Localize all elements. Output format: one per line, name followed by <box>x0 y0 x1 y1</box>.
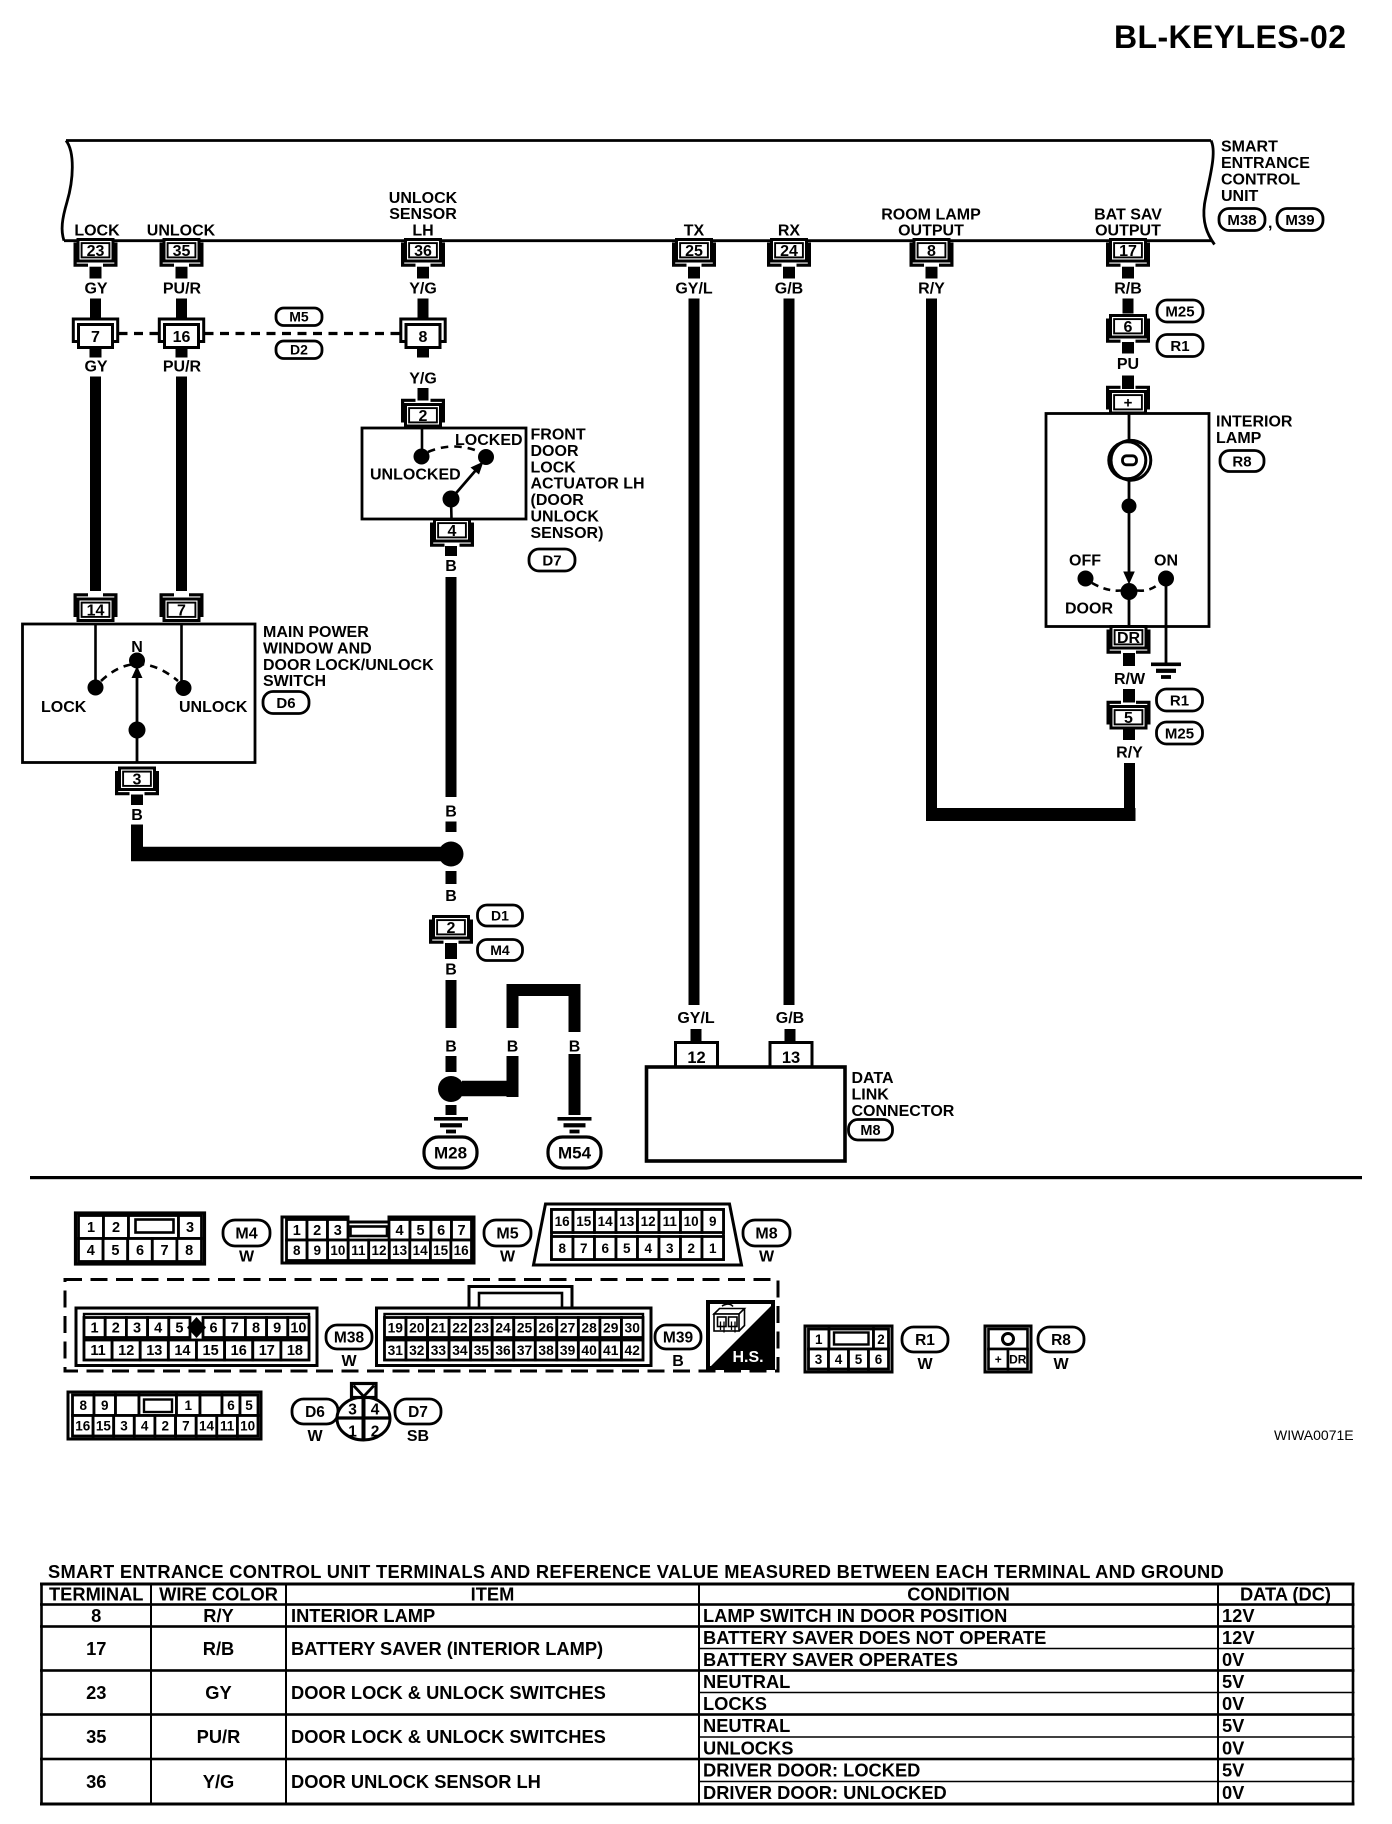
svg-text:TX: TX <box>684 223 705 240</box>
svg-text:D7: D7 <box>542 552 561 569</box>
ground junction <box>438 1076 464 1102</box>
ground at ON contact <box>1151 663 1181 679</box>
pin 13 of data link connector <box>770 1043 812 1067</box>
svg-text:DOOR LOCK/UNLOCK: DOOR LOCK/UNLOCK <box>263 657 434 674</box>
label DATA LINK CONNECTOR <box>852 1070 955 1120</box>
svg-text:12: 12 <box>371 1243 386 1258</box>
wire stub below connector 8 <box>417 348 429 358</box>
svg-text:33: 33 <box>431 1343 447 1358</box>
data link connector box <box>647 1067 846 1161</box>
svg-text:ROOM LAMP: ROOM LAMP <box>881 207 981 224</box>
dashed in-line connector link M5/D2 <box>119 332 159 335</box>
svg-text:D2: D2 <box>290 342 308 358</box>
svg-text:M4: M4 <box>490 942 510 958</box>
svg-text:CONNECTOR: CONNECTOR <box>852 1103 955 1120</box>
connector label R1 <box>1157 335 1203 357</box>
wire GY/L from TX pin 25 <box>689 299 700 1006</box>
label smart entrance control unit <box>1221 139 1310 206</box>
svg-text:R1: R1 <box>1170 692 1189 709</box>
connector M5/D2 pin 8 <box>401 319 445 348</box>
svg-text:DOOR: DOOR <box>531 443 579 460</box>
connector M8 pin layout <box>534 1204 742 1265</box>
ground label M28 <box>424 1137 477 1168</box>
svg-text:B: B <box>445 962 457 979</box>
pin DR of interior lamp <box>1108 627 1149 653</box>
smart entrance control unit band <box>62 141 1214 245</box>
svg-text:B: B <box>445 888 457 905</box>
svg-text:5: 5 <box>623 1241 631 1256</box>
svg-text:1: 1 <box>815 1332 823 1347</box>
svg-text:15: 15 <box>203 1343 219 1359</box>
svg-text:UNLOCK: UNLOCK <box>389 190 458 207</box>
svg-text:DOOR: DOOR <box>1065 601 1113 618</box>
svg-text:GY: GY <box>84 281 107 298</box>
wire from ON contact to ground <box>1165 585 1168 663</box>
wire stub below pin 25 <box>688 267 700 279</box>
svg-text:8: 8 <box>91 1605 101 1626</box>
ground label M54 <box>548 1137 601 1168</box>
svg-text:24: 24 <box>780 243 798 260</box>
svg-text:23: 23 <box>474 1321 490 1336</box>
table row terminal 23 <box>86 1671 1245 1714</box>
switch dashed arc <box>101 664 178 681</box>
svg-text:DOOR LOCK & UNLOCK SWITCHES: DOOR LOCK & UNLOCK SWITCHES <box>291 1682 606 1703</box>
connector M38 pin layout <box>76 1308 317 1366</box>
svg-text:DR: DR <box>1117 630 1141 647</box>
svg-text:8: 8 <box>185 1243 193 1259</box>
svg-text:21: 21 <box>431 1321 447 1336</box>
svg-text:7: 7 <box>161 1243 169 1259</box>
svg-text:SWITCH: SWITCH <box>263 673 326 690</box>
svg-text:R/B: R/B <box>203 1638 234 1659</box>
svg-text:4: 4 <box>395 1223 403 1239</box>
svg-text:4: 4 <box>87 1243 95 1259</box>
svg-text:29: 29 <box>603 1321 619 1336</box>
wire stub below connector 7 <box>90 348 102 358</box>
svg-text:LH: LH <box>412 223 433 240</box>
svg-text:H.S.: H.S. <box>732 1349 763 1366</box>
svg-text:7: 7 <box>177 603 186 620</box>
svg-text:5V: 5V <box>1222 1715 1245 1736</box>
switch internal wire from pin 14 <box>94 624 97 683</box>
wire stub above pin 5 <box>1123 689 1135 703</box>
svg-text:Y/G: Y/G <box>409 371 437 388</box>
svg-text:17: 17 <box>259 1343 275 1359</box>
svg-text:OUTPUT: OUTPUT <box>898 223 964 240</box>
svg-text:D1: D1 <box>491 908 509 924</box>
svg-text:22: 22 <box>452 1321 468 1336</box>
svg-text:CONDITION: CONDITION <box>907 1584 1010 1605</box>
svg-text:DOOR LOCK & UNLOCK SWITCHES: DOOR LOCK & UNLOCK SWITCHES <box>291 1726 606 1747</box>
svg-text:W: W <box>239 1249 255 1266</box>
wire G/B from RX pin 24 <box>784 299 795 1006</box>
interior lamp box <box>1046 414 1209 627</box>
svg-text:PU/R: PU/R <box>163 359 202 376</box>
svg-text:W: W <box>917 1356 933 1373</box>
svg-text:NEUTRAL: NEUTRAL <box>703 1671 790 1692</box>
svg-text:41: 41 <box>603 1343 619 1358</box>
connector label R1 <box>902 1327 948 1373</box>
table row terminal 36 <box>86 1760 1245 1804</box>
svg-text:BATTERY SAVER OPERATES: BATTERY SAVER OPERATES <box>703 1649 958 1670</box>
switch internal wire from pin 7 <box>180 624 183 683</box>
svg-text:6: 6 <box>437 1223 445 1239</box>
svg-text:16: 16 <box>173 329 191 346</box>
svg-text:FRONT: FRONT <box>531 427 586 444</box>
svg-text:RX: RX <box>778 223 801 240</box>
pin + of interior lamp <box>1108 387 1149 413</box>
wire stub below DR <box>1123 653 1135 666</box>
svg-text:M5: M5 <box>496 1226 518 1243</box>
pin 36 (UNLOCK SENSOR LH) of smart entrance control unit <box>403 240 444 266</box>
svg-text:Y/G: Y/G <box>203 1771 235 1792</box>
svg-text:PU/R: PU/R <box>163 281 202 298</box>
svg-text:2: 2 <box>112 1321 120 1337</box>
svg-text:40: 40 <box>581 1343 597 1358</box>
actuator UNLOCKED contact <box>414 449 430 465</box>
svg-text:15: 15 <box>433 1243 449 1258</box>
wire stub <box>446 822 457 833</box>
svg-text:UNLOCKED: UNLOCKED <box>370 467 461 484</box>
svg-text:2: 2 <box>371 1424 380 1441</box>
svg-text:,: , <box>1268 215 1272 232</box>
svg-text:11: 11 <box>220 1419 235 1434</box>
wire B from pin 4 <box>446 577 457 797</box>
connector R8 pin layout <box>985 1326 1031 1372</box>
svg-text:SENSOR: SENSOR <box>389 206 457 223</box>
svg-text:25: 25 <box>685 243 703 260</box>
svg-text:4: 4 <box>154 1321 162 1337</box>
svg-text:WINDOW AND: WINDOW AND <box>263 640 372 657</box>
svg-text:11: 11 <box>663 1214 678 1229</box>
pin 8 (ROOM LAMP OUTPUT) of smart entrance control unit <box>911 240 952 266</box>
svg-text:DR: DR <box>1009 1352 1027 1366</box>
connector label M5 <box>484 1220 531 1266</box>
svg-text:27: 27 <box>560 1321 576 1336</box>
svg-text:UNLOCKS: UNLOCKS <box>703 1737 793 1758</box>
svg-text:OFF: OFF <box>1069 553 1101 570</box>
svg-text:8: 8 <box>927 243 936 260</box>
connector label D7 <box>529 549 575 571</box>
connector M39 pin layout <box>377 1287 652 1366</box>
svg-text:3: 3 <box>186 1220 194 1236</box>
actuator LOCKED contact <box>478 449 494 465</box>
actuator dashed arc <box>428 447 480 453</box>
svg-text:6: 6 <box>601 1241 609 1256</box>
svg-text:14: 14 <box>199 1419 215 1434</box>
svg-text:W: W <box>759 1249 775 1266</box>
svg-text:M25: M25 <box>1165 725 1194 742</box>
wire stub below connector 6 <box>1122 342 1134 354</box>
svg-text:0V: 0V <box>1222 1649 1245 1670</box>
svg-text:4: 4 <box>371 1402 380 1419</box>
svg-text:8: 8 <box>558 1241 566 1256</box>
svg-text:12: 12 <box>118 1343 134 1359</box>
OFF contact <box>1078 571 1094 587</box>
terminals and reference value table <box>40 1583 1355 1806</box>
connector label M39 <box>655 1325 701 1370</box>
svg-text:13: 13 <box>782 1049 800 1067</box>
svg-text:26: 26 <box>538 1321 554 1336</box>
connector label D1 <box>478 905 523 926</box>
svg-text:ENTRANCE: ENTRANCE <box>1221 155 1310 172</box>
wire B to ground junction <box>446 980 457 1028</box>
svg-text:B: B <box>445 804 457 821</box>
svg-text:35: 35 <box>474 1343 490 1358</box>
pin 35 (UNLOCK) of smart entrance control unit <box>161 240 202 266</box>
svg-text:R/B: R/B <box>1114 281 1142 298</box>
svg-text:28: 28 <box>581 1321 597 1336</box>
svg-text:10: 10 <box>290 1321 306 1337</box>
svg-text:23: 23 <box>86 1682 106 1703</box>
label FRONT DOOR LOCK ACTUATOR LH (DOOR UNLOCK SENSOR) <box>531 427 645 542</box>
svg-text:UNIT: UNIT <box>1221 188 1259 205</box>
svg-text:D7: D7 <box>408 1404 428 1421</box>
svg-text:2: 2 <box>419 408 428 425</box>
ground M54 <box>558 1117 592 1133</box>
connector label M4 <box>478 940 523 961</box>
svg-text:DRIVER DOOR: UNLOCKED: DRIVER DOOR: UNLOCKED <box>703 1782 947 1803</box>
svg-text:3: 3 <box>348 1402 357 1419</box>
arrow to door switch <box>1123 506 1135 585</box>
label MAIN POWER WINDOW AND DOOR LOCK/UNLOCK SWITCH <box>263 624 434 690</box>
svg-text:15: 15 <box>576 1214 592 1229</box>
connector label M25 <box>1157 300 1203 322</box>
svg-text:2: 2 <box>161 1419 169 1434</box>
svg-text:R1: R1 <box>1170 338 1189 355</box>
label INTERIOR LAMP <box>1216 414 1293 448</box>
svg-text:GY/L: GY/L <box>677 1010 715 1027</box>
svg-text:37: 37 <box>517 1343 533 1358</box>
svg-text:35: 35 <box>86 1726 106 1747</box>
wire PU/R to pin 7 <box>176 377 187 592</box>
connector label M4 <box>223 1220 270 1266</box>
svg-text:TERMINAL: TERMINAL <box>49 1584 143 1605</box>
svg-text:20: 20 <box>409 1321 425 1336</box>
svg-text:R8: R8 <box>1051 1332 1071 1349</box>
svg-text:W: W <box>1053 1356 1069 1373</box>
wire B from junction to U-shape <box>462 1056 519 1097</box>
svg-text:MAIN POWER: MAIN POWER <box>263 624 369 641</box>
connector label D6 <box>292 1399 338 1445</box>
svg-text:BL-KEYLES-02: BL-KEYLES-02 <box>1114 19 1346 55</box>
svg-text:25: 25 <box>517 1321 533 1336</box>
pin name ROOM LAMP OUTPUT <box>881 207 981 240</box>
svg-text:8: 8 <box>252 1321 260 1337</box>
wire GY to pin 14 <box>90 377 101 592</box>
svg-text:+: + <box>1124 395 1133 412</box>
wire from DOOR contact to DR pin <box>1128 598 1131 627</box>
connector label D7 <box>395 1399 441 1445</box>
svg-text:(DOOR: (DOOR <box>531 492 585 509</box>
svg-text:LOCK: LOCK <box>531 459 577 476</box>
svg-text:M38: M38 <box>334 1330 365 1347</box>
connector M5 pin layout <box>282 1217 474 1263</box>
svg-text:W: W <box>307 1428 323 1445</box>
wire stub above + pin <box>1122 376 1134 390</box>
svg-text:DATA: DATA <box>852 1070 895 1087</box>
svg-text:1: 1 <box>348 1424 357 1441</box>
svg-text:WIRE COLOR: WIRE COLOR <box>159 1584 278 1605</box>
svg-text:0V: 0V <box>1222 1737 1245 1758</box>
connector D6 pin layout <box>68 1392 261 1439</box>
LOCK contact <box>88 680 104 696</box>
svg-text:SMART ENTRANCE CONTROL UNIT TE: SMART ENTRANCE CONTROL UNIT TERMINALS AN… <box>48 1561 1224 1582</box>
svg-text:6: 6 <box>227 1398 235 1413</box>
pin name BAT SAV OUTPUT <box>1094 207 1162 240</box>
ground M28 <box>434 1117 468 1133</box>
wire stub above junction <box>446 1056 457 1072</box>
svg-text:UNLOCK: UNLOCK <box>531 509 600 526</box>
svg-text:3: 3 <box>334 1223 342 1239</box>
svg-text:M8: M8 <box>860 1123 880 1139</box>
svg-text:LAMP SWITCH IN DOOR POSITION: LAMP SWITCH IN DOOR POSITION <box>703 1605 1007 1626</box>
svg-text:9: 9 <box>314 1243 322 1258</box>
svg-text:LAMP: LAMP <box>1216 430 1262 447</box>
wire R/Y from pin 5 down <box>1124 763 1135 808</box>
svg-text:0V: 0V <box>1222 1782 1245 1803</box>
svg-text:13: 13 <box>392 1243 408 1258</box>
svg-text:GY: GY <box>205 1682 231 1703</box>
svg-text:BATTERY SAVER DOES NOT OPERATE: BATTERY SAVER DOES NOT OPERATE <box>703 1627 1046 1648</box>
wire stub to pin 13 <box>785 1029 796 1044</box>
svg-text:G/B: G/B <box>775 281 803 298</box>
DOOR common contact <box>1121 583 1138 600</box>
svg-text:9: 9 <box>101 1398 109 1413</box>
svg-text:M4: M4 <box>235 1226 257 1243</box>
connector label R8 <box>1220 451 1264 472</box>
svg-text:5V: 5V <box>1222 1760 1245 1781</box>
svg-text:9: 9 <box>709 1214 717 1229</box>
wire stub below pin 24 <box>783 267 795 279</box>
svg-text:B: B <box>672 1353 684 1370</box>
svg-text:B: B <box>507 1039 519 1056</box>
svg-text:32: 32 <box>409 1343 425 1358</box>
svg-text:R/Y: R/Y <box>203 1605 233 1626</box>
svg-text:4: 4 <box>448 523 457 540</box>
svg-text:SB: SB <box>407 1428 429 1445</box>
svg-text:8: 8 <box>419 329 428 346</box>
pin 17 (BAT SAV OUTPUT) of smart entrance control unit <box>1108 240 1149 266</box>
svg-text:34: 34 <box>452 1343 468 1358</box>
connector label R1 <box>1157 689 1203 711</box>
svg-text:6: 6 <box>136 1243 144 1259</box>
ON contact <box>1158 571 1174 587</box>
svg-text:D6: D6 <box>276 695 295 712</box>
connector label M39 <box>1277 209 1323 231</box>
svg-text:B: B <box>569 1039 581 1056</box>
svg-text:BATTERY SAVER (INTERIOR LAMP): BATTERY SAVER (INTERIOR LAMP) <box>291 1638 603 1659</box>
svg-text:LOCK: LOCK <box>41 699 87 716</box>
connector label D2 <box>276 341 322 359</box>
svg-text:36: 36 <box>414 243 432 260</box>
svg-text:3: 3 <box>120 1419 128 1434</box>
svg-text:24: 24 <box>495 1321 511 1336</box>
svg-text:OUTPUT: OUTPUT <box>1095 223 1161 240</box>
svg-text:23: 23 <box>87 243 105 260</box>
svg-text:5: 5 <box>245 1398 253 1413</box>
svg-text:2: 2 <box>877 1332 885 1347</box>
pin 23 (LOCK) of smart entrance control unit <box>75 240 116 266</box>
svg-text:7: 7 <box>457 1223 465 1239</box>
svg-text:9: 9 <box>273 1321 281 1337</box>
svg-text:WIWA0071E: WIWA0071E <box>1274 1427 1354 1443</box>
svg-text:15: 15 <box>96 1419 112 1434</box>
svg-text:35: 35 <box>173 243 191 260</box>
svg-text:3: 3 <box>133 1321 141 1337</box>
wire stub below pin 35 <box>176 267 188 279</box>
svg-text:W: W <box>500 1249 516 1266</box>
svg-text:M39: M39 <box>663 1330 694 1347</box>
svg-text:14: 14 <box>87 603 105 620</box>
svg-text:13: 13 <box>146 1343 162 1359</box>
svg-text:12: 12 <box>641 1214 656 1229</box>
svg-text:R/W: R/W <box>1114 671 1146 688</box>
pin 7 of main power window switch <box>161 595 202 621</box>
wire stub below pin 36 <box>417 267 429 279</box>
svg-text:17: 17 <box>1119 243 1137 260</box>
connector M5/D2 pin 7 <box>73 319 117 348</box>
svg-text:8: 8 <box>79 1398 87 1413</box>
N contact <box>129 653 145 669</box>
pin 25 (TX) of smart entrance control unit <box>674 240 715 266</box>
svg-text:ITEM: ITEM <box>471 1584 515 1605</box>
pin 3 of main power window switch <box>117 768 158 794</box>
H.S. harness symbol <box>708 1302 773 1368</box>
wire PU/R from pin 35 <box>176 299 187 320</box>
svg-text:CONTROL: CONTROL <box>1221 172 1300 189</box>
svg-text:N: N <box>131 639 143 656</box>
svg-text:1: 1 <box>91 1321 99 1337</box>
svg-text:UNLOCK: UNLOCK <box>179 699 248 716</box>
wire stub below junction <box>446 871 457 884</box>
svg-text:BAT SAV: BAT SAV <box>1094 207 1162 224</box>
front door lock actuator box <box>362 428 526 519</box>
svg-text:W: W <box>341 1353 357 1370</box>
wire stub below connector 2 <box>445 943 457 959</box>
svg-text:M39: M39 <box>1285 212 1314 229</box>
svg-text:2: 2 <box>313 1223 321 1239</box>
connector label R8 <box>1038 1327 1084 1373</box>
svg-text:31: 31 <box>388 1343 404 1358</box>
svg-text:13: 13 <box>619 1214 635 1229</box>
svg-text:M25: M25 <box>1165 303 1194 320</box>
svg-text:16: 16 <box>454 1243 470 1258</box>
svg-text:LOCKS: LOCKS <box>703 1693 767 1714</box>
svg-text:LOCK: LOCK <box>74 223 120 240</box>
wire R/B from pin 17 <box>1123 299 1134 314</box>
svg-text:R8: R8 <box>1232 453 1251 470</box>
pin name UNLOCK SENSOR LH <box>389 190 458 240</box>
svg-text:GY: GY <box>84 359 107 376</box>
svg-text:ACTUATOR LH: ACTUATOR LH <box>531 476 645 493</box>
svg-text:42: 42 <box>625 1343 641 1358</box>
svg-text:12V: 12V <box>1222 1605 1255 1626</box>
svg-text:5: 5 <box>175 1321 183 1337</box>
in-line connector pin 6 (M25/R1) <box>1108 316 1149 342</box>
UNLOCK contact <box>176 680 192 696</box>
svg-text:5: 5 <box>855 1352 863 1367</box>
svg-text:B: B <box>445 558 457 575</box>
separator line <box>30 1176 1362 1179</box>
svg-text:D6: D6 <box>305 1404 325 1421</box>
svg-text:M8: M8 <box>755 1226 777 1243</box>
wire stub below pin 5 <box>1123 728 1135 740</box>
svg-text:10: 10 <box>330 1243 345 1258</box>
wire R/Y from pin 8 to interior lamp pin 5 wire <box>926 299 1136 822</box>
pin 24 (RX) of smart entrance control unit <box>769 240 810 266</box>
in-line connector pin 2 (D1/M4) <box>431 917 472 943</box>
